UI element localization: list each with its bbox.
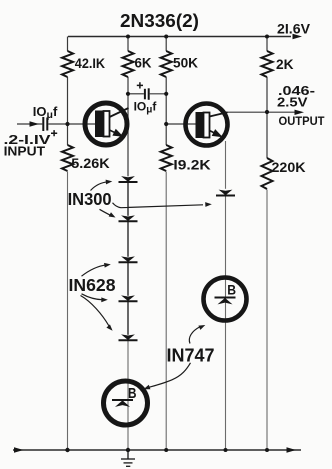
svg-text:IOμf: IOμf: [33, 104, 58, 121]
svg-text:42.IK: 42.IK: [75, 56, 106, 72]
svg-text:OUTPUT: OUTPUT: [279, 114, 326, 128]
svg-text:2K: 2K: [276, 57, 294, 73]
svg-text:2I.6V: 2I.6V: [277, 22, 311, 38]
svg-text:IOμf: IOμf: [134, 100, 158, 116]
svg-text:IN628: IN628: [69, 275, 116, 295]
svg-text:IN300: IN300: [68, 189, 112, 209]
svg-text:2.5V: 2.5V: [277, 96, 308, 110]
svg-text:I9.2K: I9.2K: [173, 158, 211, 174]
svg-text:2N336(2): 2N336(2): [120, 10, 199, 31]
svg-text:INPUT: INPUT: [4, 143, 46, 158]
svg-text:6K: 6K: [135, 56, 153, 72]
svg-text:50K: 50K: [173, 56, 199, 72]
svg-text:B: B: [227, 282, 236, 298]
svg-text:5.26K: 5.26K: [71, 156, 110, 172]
svg-text:B: B: [128, 386, 137, 402]
svg-text:IN747: IN747: [167, 345, 215, 366]
svg-text:220K: 220K: [272, 160, 307, 176]
